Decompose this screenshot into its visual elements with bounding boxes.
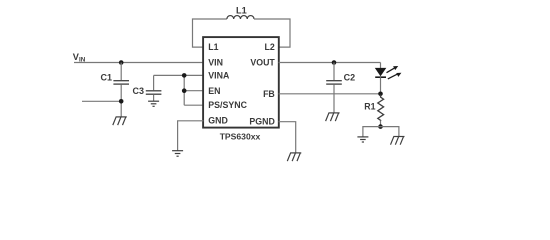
wire L1 pin loop left — [193, 19, 227, 47]
wire R1 bottom to analog ground — [363, 127, 381, 137]
svg-text:C3: C3 — [133, 86, 145, 96]
wire FB — [279, 93, 381, 95]
svg-text:L1: L1 — [236, 5, 247, 15]
ground analog ground left of R1 — [357, 137, 368, 142]
svg-text:C2: C2 — [344, 73, 356, 83]
svg-text:VOUT: VOUT — [250, 58, 275, 68]
op-amp U1 TPS630xx box — [203, 37, 279, 128]
wire PGND pin — [279, 122, 296, 153]
node VIN label — [73, 52, 86, 63]
svg-text:FB: FB — [263, 89, 275, 99]
ground analog ground under GND pin — [172, 151, 183, 157]
svg-text:C1: C1 — [101, 72, 113, 82]
capacitor C2 — [326, 63, 355, 113]
ground power ground under C1 — [113, 117, 127, 125]
svg-text:PGND: PGND — [249, 117, 274, 127]
svg-text:VINA: VINA — [208, 70, 230, 80]
wire VINA-EN-PS/SYNC bus — [184, 75, 203, 105]
node junction VINA bus — [182, 73, 187, 78]
node junction FB — [378, 92, 383, 97]
resistor R1 — [364, 95, 383, 122]
svg-text:R1: R1 — [364, 101, 375, 111]
capacitor C3 — [133, 75, 162, 101]
capacitor C1 — [101, 63, 130, 117]
svg-text:EN: EN — [208, 86, 220, 96]
node junction R1 bottom — [378, 124, 383, 129]
svg-text:PS/SYNC: PS/SYNC — [208, 100, 247, 110]
ground power ground under PGND pin — [287, 153, 301, 161]
wire VOUT rail — [279, 62, 381, 64]
node junction C1 bottom — [119, 99, 124, 104]
wire R1 bottom — [380, 121, 382, 127]
node junction C2 top — [332, 60, 337, 65]
diode LED D1 — [375, 66, 402, 79]
wire LED cathode to FB node — [380, 77, 382, 96]
ground power ground right of R1 — [391, 137, 405, 145]
wire R1 bottom to power ground — [381, 127, 399, 137]
wire LED anode drop — [380, 63, 382, 69]
svg-text:TPS630xx: TPS630xx — [220, 131, 261, 141]
node junction C1 top — [119, 60, 124, 65]
svg-text:L1: L1 — [208, 42, 218, 52]
ground analog ground under C3 — [148, 101, 159, 106]
svg-text:VIN: VIN — [208, 58, 223, 68]
ground power ground under C2 — [326, 113, 340, 121]
wire GND pin — [178, 121, 204, 151]
inductor L1 — [227, 5, 254, 19]
wire VINA rail — [154, 74, 204, 76]
svg-text:L2: L2 — [265, 42, 275, 52]
wire L2 pin loop right — [254, 19, 290, 47]
svg-text:GND: GND — [208, 116, 228, 126]
wire VIN rail — [74, 62, 204, 64]
node junction EN bus — [182, 88, 187, 93]
wire input return stub — [82, 100, 121, 102]
